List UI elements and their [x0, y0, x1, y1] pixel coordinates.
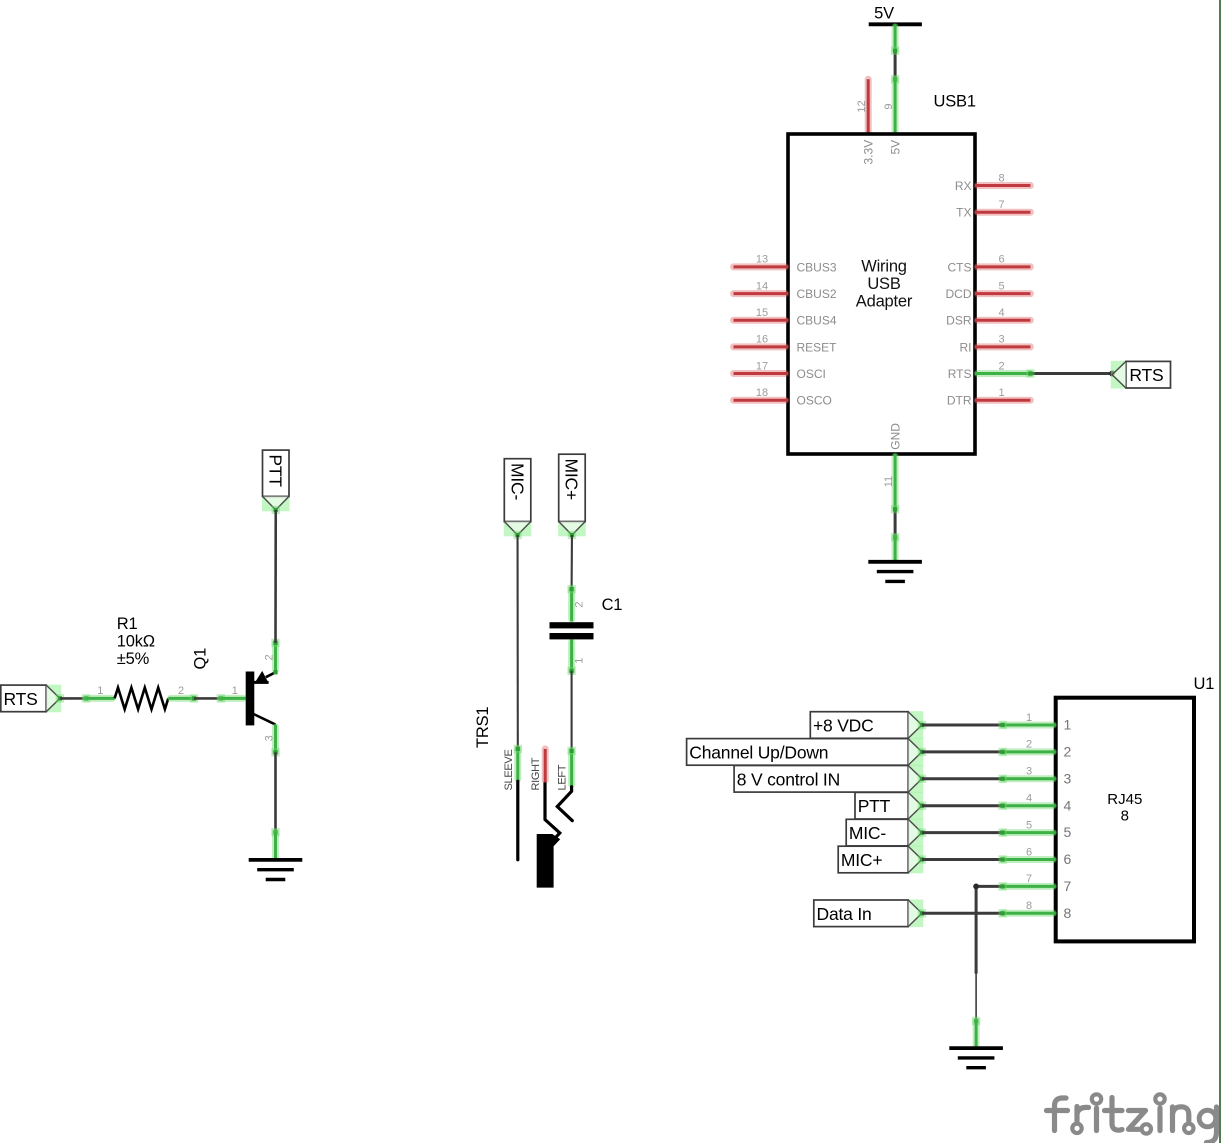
- svg-text:1: 1: [232, 685, 238, 697]
- svg-text:17: 17: [756, 360, 768, 372]
- svg-text:3: 3: [998, 334, 1004, 346]
- svg-text:Data In: Data In: [817, 904, 872, 924]
- svg-text:4: 4: [1064, 797, 1072, 813]
- svg-text:DSR: DSR: [946, 314, 972, 328]
- svg-text:MIC+: MIC+: [562, 459, 582, 501]
- svg-text:1: 1: [1026, 712, 1032, 724]
- svg-text:RTS: RTS: [948, 367, 972, 381]
- svg-text:RIGHT: RIGHT: [530, 757, 542, 790]
- svg-text:OSCI: OSCI: [797, 367, 826, 381]
- svg-text:USB: USB: [867, 275, 901, 293]
- svg-text:7: 7: [998, 199, 1004, 211]
- svg-text:Q1: Q1: [192, 648, 210, 670]
- svg-text:RESET: RESET: [797, 340, 838, 354]
- svg-text:3.3V: 3.3V: [862, 140, 876, 165]
- svg-text:18: 18: [756, 387, 768, 399]
- svg-text:1: 1: [97, 685, 103, 697]
- svg-text:11: 11: [883, 476, 895, 487]
- svg-text:CBUS2: CBUS2: [797, 287, 837, 301]
- svg-text:8: 8: [1026, 900, 1032, 912]
- svg-text:8: 8: [1121, 808, 1129, 825]
- svg-text:CTS: CTS: [948, 260, 972, 274]
- svg-text:10kΩ: 10kΩ: [117, 633, 155, 651]
- svg-text:RJ45: RJ45: [1107, 791, 1142, 808]
- svg-text:1: 1: [1064, 717, 1072, 733]
- svg-text:+8 VDC: +8 VDC: [813, 716, 874, 736]
- svg-text:6: 6: [1026, 846, 1032, 858]
- svg-text:2: 2: [264, 654, 276, 660]
- svg-text:OSCO: OSCO: [797, 394, 832, 408]
- svg-text:DCD: DCD: [946, 287, 972, 301]
- svg-text:PTT: PTT: [858, 796, 891, 816]
- svg-text:RI: RI: [960, 340, 972, 354]
- svg-text:2: 2: [1064, 744, 1072, 760]
- svg-text:4: 4: [1026, 793, 1032, 805]
- svg-text:1: 1: [574, 658, 586, 664]
- svg-text:2: 2: [178, 685, 184, 697]
- svg-text:3: 3: [1026, 766, 1032, 778]
- svg-text:±5%: ±5%: [117, 650, 150, 668]
- svg-text:2: 2: [1026, 739, 1032, 751]
- svg-text:3: 3: [264, 735, 276, 741]
- svg-text:5: 5: [998, 280, 1004, 292]
- svg-text:LEFT: LEFT: [557, 764, 569, 790]
- svg-text:16: 16: [756, 334, 768, 346]
- svg-text:Wiring: Wiring: [861, 258, 907, 276]
- svg-text:8: 8: [998, 172, 1004, 184]
- svg-text:7: 7: [1026, 873, 1032, 885]
- svg-text:8 V control IN: 8 V control IN: [737, 769, 840, 789]
- svg-text:7: 7: [1064, 878, 1072, 894]
- svg-text:TRS1: TRS1: [474, 707, 492, 748]
- svg-text:5: 5: [1026, 819, 1032, 831]
- svg-text:R1: R1: [117, 615, 138, 633]
- svg-text:DTR: DTR: [947, 394, 972, 408]
- svg-text:SLEEVE: SLEEVE: [503, 749, 515, 790]
- svg-text:GND: GND: [888, 423, 902, 450]
- svg-text:2: 2: [998, 360, 1004, 372]
- svg-text:CBUS4: CBUS4: [797, 314, 837, 328]
- svg-text:6: 6: [998, 254, 1004, 266]
- svg-text:1: 1: [998, 387, 1004, 399]
- svg-text:RTS: RTS: [1129, 365, 1163, 385]
- svg-text:3: 3: [1064, 770, 1072, 786]
- svg-text:6: 6: [1064, 851, 1072, 867]
- svg-text:9: 9: [883, 103, 895, 109]
- svg-text:C1: C1: [602, 596, 623, 614]
- svg-text:U1: U1: [1194, 675, 1215, 693]
- svg-text:TX: TX: [956, 206, 971, 220]
- svg-text:PTT: PTT: [265, 454, 285, 487]
- svg-text:RTS: RTS: [4, 689, 38, 709]
- svg-text:5V: 5V: [874, 5, 894, 23]
- svg-text:RX: RX: [955, 179, 972, 193]
- svg-text:5: 5: [1064, 824, 1072, 840]
- svg-text:Adapter: Adapter: [856, 293, 913, 311]
- svg-text:5V: 5V: [888, 140, 902, 155]
- svg-text:USB1: USB1: [934, 92, 976, 110]
- svg-text:15: 15: [756, 307, 768, 319]
- svg-text:12: 12: [856, 100, 868, 112]
- svg-text:MIC+: MIC+: [841, 850, 883, 870]
- svg-text:14: 14: [756, 280, 768, 292]
- svg-text:Channel Up/Down: Channel Up/Down: [689, 742, 828, 762]
- svg-text:8: 8: [1064, 905, 1072, 921]
- svg-text:13: 13: [756, 254, 768, 266]
- svg-text:2: 2: [574, 601, 586, 607]
- svg-text:4: 4: [998, 307, 1004, 319]
- svg-text:MIC-: MIC-: [849, 823, 886, 843]
- svg-text:CBUS3: CBUS3: [797, 260, 837, 274]
- svg-text:MIC-: MIC-: [507, 463, 527, 500]
